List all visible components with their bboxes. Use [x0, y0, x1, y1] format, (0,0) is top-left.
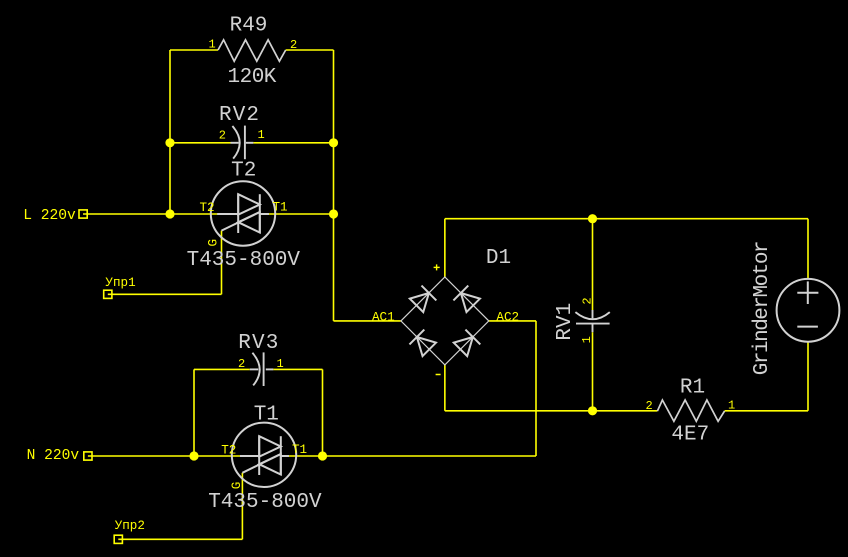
wire top row y50 left: [170, 49, 218, 51]
pin name D1 plus: [434, 264, 440, 270]
wire RV3 left vertical x194: [193, 369, 195, 456]
svg-text:G: G: [230, 482, 244, 490]
junction dot N net left: [189, 451, 198, 460]
svg-text:G: G: [206, 239, 220, 247]
wire bottom rail right: [725, 410, 808, 412]
wire RV3 row left: [194, 368, 250, 370]
wire RV3 row right: [273, 368, 322, 370]
svg-text:RV2: RV2: [219, 104, 259, 127]
wire AC1 horizontal: [334, 320, 401, 322]
wire N row from AC2 drop: [323, 455, 537, 457]
wire RV3 right vertical x322.5: [322, 369, 324, 456]
bridge rectifier D1: [401, 277, 489, 365]
svg-text:4E7: 4E7: [671, 423, 709, 446]
wire L net left horizontal: [83, 213, 219, 215]
wire left vertical x170: [169, 50, 171, 214]
wire motor bottom vertical: [807, 342, 809, 411]
wire T2 gate horizontal to Upr1: [108, 293, 222, 295]
wire T1 gate horizontal to Upr2: [118, 538, 242, 540]
wire AC2 horizontal: [489, 320, 536, 322]
junction dot T1 right: [318, 451, 327, 460]
resistor R1: [657, 400, 724, 421]
svg-text:1: 1: [277, 357, 284, 371]
wire motor top vertical: [807, 219, 809, 279]
diode D1 bottom-right: [453, 330, 480, 357]
svg-text:T435-800V: T435-800V: [187, 249, 301, 272]
wire right vertical x333.5: [333, 50, 335, 321]
wire top rail y218.7: [445, 218, 808, 220]
svg-text:AC2: AC2: [496, 310, 519, 324]
svg-text:120K: 120K: [228, 66, 277, 89]
svg-text:T1: T1: [273, 201, 288, 215]
wire bridge plus vertical: [444, 219, 446, 278]
svg-text:RV3: RV3: [238, 332, 278, 355]
triac T2: [211, 181, 275, 245]
wire bridge minus vertical: [444, 365, 446, 411]
svg-text:1: 1: [580, 336, 594, 343]
junction dot L net: [165, 209, 174, 218]
wire T1 gate vertical: [241, 473, 243, 540]
wire RV1 top vertical: [592, 219, 594, 310]
pin square Upr1: [104, 290, 112, 298]
svg-text:1: 1: [258, 128, 265, 142]
junction dot T2 right: [329, 209, 338, 218]
capacitor RV3: [250, 352, 274, 386]
svg-text:T1: T1: [254, 404, 279, 427]
wire top row y50 right: [286, 49, 334, 51]
junction dot RV2 right: [329, 138, 338, 147]
pin square L 220v: [79, 210, 87, 218]
svg-text:2: 2: [581, 297, 595, 304]
svg-text:2: 2: [219, 129, 226, 143]
svg-text:2: 2: [290, 38, 297, 52]
svg-text:R1: R1: [680, 376, 705, 399]
pin name D1 minus: [436, 374, 441, 376]
svg-text:1: 1: [728, 398, 735, 412]
svg-text:Упр1: Упр1: [105, 276, 135, 290]
svg-text:1: 1: [209, 38, 216, 52]
wire T2 gate vertical: [221, 231, 223, 295]
wire RV2 row left: [170, 142, 231, 144]
wire N net right of T1: [289, 455, 323, 457]
svg-text:T2: T2: [200, 201, 215, 215]
junction dot top rail RV1: [588, 214, 597, 223]
wire bottom rail left: [445, 410, 658, 412]
svg-text:Упр2: Упр2: [115, 519, 145, 533]
diode D1 top-left: [409, 286, 436, 313]
resistor R49: [218, 40, 286, 61]
svg-text:GrinderMotor: GrinderMotor: [751, 242, 774, 375]
capacitor RV2: [231, 126, 254, 160]
svg-text:RV1: RV1: [554, 303, 577, 341]
triac T1: [232, 423, 296, 487]
svg-text:R49: R49: [230, 14, 268, 37]
wire L net right of T2: [268, 213, 334, 215]
svg-text:T1: T1: [292, 443, 307, 457]
svg-text:D1: D1: [486, 247, 511, 270]
diode D1 bottom-left: [409, 330, 436, 357]
junction dot bottom rail RV1: [588, 406, 597, 415]
diode D1 top-right: [453, 286, 480, 313]
svg-text:T2: T2: [221, 444, 236, 458]
svg-text:2: 2: [238, 357, 245, 371]
wire N net left horizontal: [88, 455, 240, 457]
wire RV2 row right: [253, 142, 333, 144]
wire RV1 bottom vertical: [592, 332, 594, 411]
capacitor RV1: [575, 310, 609, 332]
svg-text:AC1: AC1: [372, 310, 395, 324]
wire AC2 drop vertical x536: [535, 321, 537, 456]
pin square N 220v: [84, 452, 92, 460]
svg-text:T435-800V: T435-800V: [208, 491, 322, 514]
svg-text:L 220v: L 220v: [23, 208, 76, 224]
motor M1 GrinderMotor: [777, 279, 840, 342]
junction dot RV2 left: [165, 138, 174, 147]
svg-text:N 220v: N 220v: [27, 448, 80, 464]
svg-text:2: 2: [646, 399, 653, 413]
pin square Upr2: [114, 535, 122, 543]
svg-text:T2: T2: [231, 159, 256, 182]
